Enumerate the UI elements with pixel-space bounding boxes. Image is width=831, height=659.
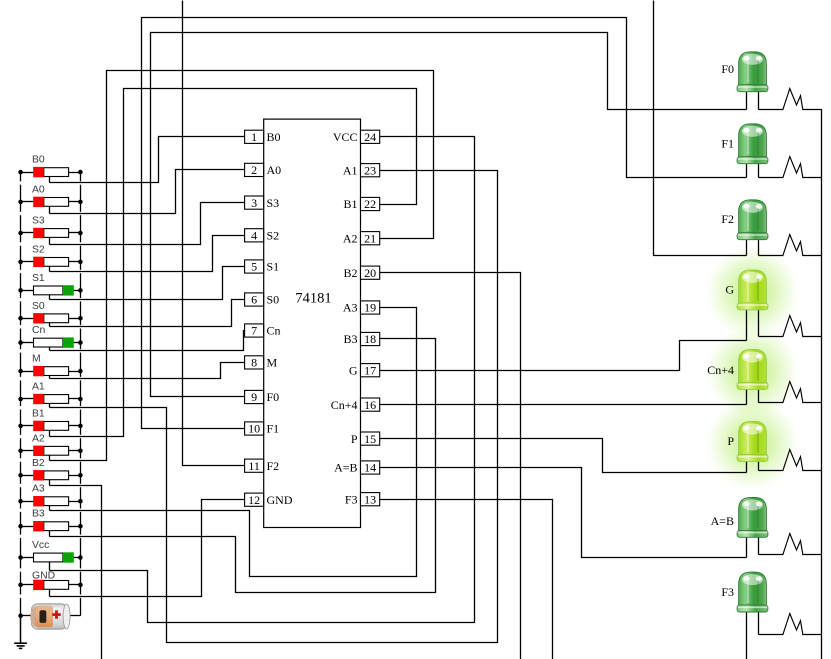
svg-text:F1: F1 — [721, 137, 734, 151]
svg-text:B0: B0 — [267, 130, 281, 144]
svg-text:Cn+4: Cn+4 — [707, 363, 734, 377]
svg-text:5: 5 — [251, 260, 257, 274]
LED F1 — [737, 124, 779, 178]
svg-text:6: 6 — [251, 293, 257, 307]
svg-text:Cn: Cn — [32, 325, 46, 336]
svg-text:M: M — [267, 356, 278, 370]
svg-text:A2: A2 — [32, 433, 45, 444]
wire net Vcc switch to pin 24 VCC — [50, 137, 475, 623]
wire net F2 feed to LED F2 (enters from top) — [654, 1, 747, 256]
svg-text:S2: S2 — [267, 229, 280, 243]
LED Cn+4 — [737, 350, 779, 405]
svg-text:9: 9 — [251, 390, 257, 404]
svg-text:10: 10 — [248, 422, 260, 436]
svg-text:8: 8 — [251, 356, 257, 370]
battery B1 (supply) — [30, 604, 70, 629]
svg-text:S3: S3 — [32, 216, 45, 227]
pin 23 A1 — [361, 164, 380, 177]
ground symbol — [20, 616, 22, 643]
svg-text:23: 23 — [364, 163, 376, 177]
resistor R A=B — [780, 534, 822, 555]
wire net pin 10 F1 to LED F1 — [142, 18, 747, 429]
svg-text:G: G — [725, 283, 734, 297]
switch M — [21, 371, 34, 373]
wire net pin 9 F0 to LED F0 — [151, 33, 747, 397]
svg-text:F3: F3 — [721, 585, 734, 599]
wire net B3 switch to pin 18 — [50, 339, 436, 593]
svg-text:A2: A2 — [343, 231, 358, 245]
resistor R G — [780, 316, 822, 337]
pin 21 A2 — [361, 232, 380, 245]
svg-text:VCC: VCC — [333, 130, 358, 144]
LED A=B — [737, 497, 779, 557]
wire net Cn switch to pin 7 — [50, 331, 245, 351]
pin 3 S3 — [245, 196, 264, 209]
svg-text:19: 19 — [364, 301, 376, 315]
svg-text:S2: S2 — [32, 244, 45, 255]
pin 20 B2 — [361, 266, 380, 279]
wire net S2 switch to pin 4 — [50, 236, 245, 272]
switch Vcc — [21, 557, 34, 559]
pin 22 B1 — [361, 197, 380, 210]
svg-text:14: 14 — [364, 461, 376, 475]
svg-text:F0: F0 — [267, 390, 280, 404]
pin 9 F0 — [245, 390, 264, 403]
switch A3 — [21, 501, 34, 503]
svg-text:22: 22 — [364, 197, 376, 211]
pin 12 GND — [245, 493, 264, 506]
wire net S0 switch to pin 6 — [50, 300, 245, 327]
resistor R F1 — [780, 157, 822, 178]
switch A1 — [21, 398, 34, 400]
svg-text:A1: A1 — [343, 163, 358, 177]
glow of LED Cn+4 — [707, 326, 799, 418]
switch A0 — [21, 201, 34, 203]
pin 19 A3 — [361, 301, 380, 314]
svg-text:21: 21 — [364, 231, 376, 245]
svg-text:S0: S0 — [32, 301, 45, 312]
pin 17 G — [361, 364, 380, 377]
svg-text:Vcc: Vcc — [32, 540, 49, 551]
wire net pin 16 Cn+4 to LED Cn+4 — [380, 404, 747, 406]
svg-text:Cn+4: Cn+4 — [331, 398, 358, 412]
svg-text:B0: B0 — [32, 155, 45, 166]
wire net S3 switch to pin 3 — [50, 203, 245, 245]
pin 10 F1 — [245, 422, 264, 435]
svg-text:GND: GND — [32, 570, 55, 581]
wire net B1 switch to pin 22 — [50, 89, 417, 437]
wire battery to left rail — [21, 615, 32, 617]
svg-text:F1: F1 — [267, 422, 280, 436]
pin 2 A0 — [245, 163, 264, 176]
svg-text:20: 20 — [364, 266, 376, 280]
switch B0 — [21, 172, 34, 174]
pin 6 S0 — [245, 293, 264, 306]
wire net GND switch to pin 12 — [50, 500, 245, 597]
svg-text:B1: B1 — [32, 408, 45, 419]
svg-text:F2: F2 — [267, 459, 280, 473]
svg-text:13: 13 — [364, 492, 376, 506]
pin 5 S1 — [245, 260, 264, 273]
svg-text:17: 17 — [364, 363, 376, 377]
svg-text:4: 4 — [251, 229, 257, 243]
svg-text:7: 7 — [251, 324, 257, 338]
wire net pin 13 F3 (exits bottom) — [380, 500, 553, 659]
svg-text:F3: F3 — [345, 492, 358, 506]
resistor R F2 — [780, 235, 822, 256]
LED F3 — [737, 572, 779, 634]
op IC U1 74181 body — [264, 119, 361, 527]
wire net B0 switch to pin 1 — [50, 137, 245, 183]
LED P — [737, 422, 779, 473]
wire battery to right rail — [69, 615, 81, 617]
svg-text:B3: B3 — [32, 509, 45, 520]
svg-text:P: P — [727, 434, 734, 448]
svg-text:1: 1 — [251, 130, 257, 144]
switch B2 — [21, 475, 34, 477]
wire LED cathode rail (right) — [821, 110, 823, 659]
pin 7 Cn — [245, 324, 264, 337]
svg-text:15: 15 — [364, 432, 376, 446]
switch S3 — [21, 232, 34, 234]
svg-text:A=B: A=B — [711, 514, 734, 528]
pin 24 VCC — [361, 130, 380, 143]
switch B3 — [21, 526, 34, 528]
switch B1 — [21, 425, 34, 427]
svg-text:18: 18 — [364, 332, 376, 346]
svg-text:11: 11 — [248, 459, 260, 473]
svg-text:2: 2 — [251, 163, 257, 177]
svg-text:P: P — [351, 432, 358, 446]
svg-text:12: 12 — [248, 493, 260, 507]
pin 8 M — [245, 356, 264, 369]
svg-text:B3: B3 — [343, 332, 357, 346]
svg-text:A1: A1 — [32, 382, 45, 393]
pin 18 B3 — [361, 332, 380, 345]
wire LED F3 cathode lead (exits bottom) — [746, 613, 748, 659]
switch Cn — [21, 342, 34, 344]
switch GND — [21, 584, 34, 586]
pin 13 F3 — [361, 493, 380, 506]
wire left GND rail — [20, 172, 22, 181]
switch S1 — [21, 290, 34, 292]
svg-text:A=B: A=B — [334, 461, 357, 475]
svg-text:B2: B2 — [343, 266, 357, 280]
resistor R Cn+4 — [780, 382, 822, 403]
svg-text:A0: A0 — [267, 163, 282, 177]
svg-text:F2: F2 — [721, 212, 734, 226]
svg-text:A3: A3 — [343, 301, 358, 315]
svg-text:24: 24 — [364, 130, 376, 144]
svg-text:A3: A3 — [32, 484, 45, 495]
svg-text:M: M — [32, 354, 41, 365]
pin 4 S2 — [245, 229, 264, 242]
wire net A0 switch to pin 2 — [50, 170, 245, 214]
pin 1 B0 — [245, 130, 264, 143]
wire net pin 11 F2 left part (exits top) — [183, 1, 245, 466]
wire net pin 17 G to LED G — [380, 341, 747, 371]
LED F2 — [737, 200, 779, 256]
svg-text:F0: F0 — [721, 62, 734, 76]
resistor R F3 — [780, 614, 822, 635]
pin 16 Cn+4 — [361, 398, 380, 411]
pin 11 F2 — [245, 459, 264, 472]
LED F0 — [737, 52, 779, 110]
svg-text:S3: S3 — [267, 196, 280, 210]
svg-text:3: 3 — [251, 196, 257, 210]
wire net A3 switch to pin 19 — [50, 308, 417, 577]
svg-text:S1: S1 — [32, 273, 45, 284]
pin 15 P — [361, 432, 380, 445]
wire net A2 switch to pin 21 — [50, 71, 434, 461]
switch S2 — [21, 261, 34, 263]
wire net A1 switch to pin 23 — [50, 171, 498, 643]
glow of LED G — [707, 246, 799, 338]
svg-text:B1: B1 — [343, 197, 357, 211]
svg-text:74181: 74181 — [295, 291, 331, 307]
svg-text:GND: GND — [267, 493, 293, 507]
wire net pin 14 A=B to LED A=B — [380, 468, 747, 558]
svg-text:16: 16 — [364, 398, 376, 412]
resistor R F0 — [780, 89, 822, 110]
wire net B2 feed to pin 20 (enters from bottom) — [380, 273, 521, 659]
wire net pin 15 P to LED P — [380, 439, 747, 473]
pin 14 A=B — [361, 461, 380, 474]
svg-text:Cn: Cn — [267, 324, 281, 338]
wire right VCC rail — [80, 172, 82, 181]
svg-text:S1: S1 — [267, 260, 280, 274]
wire net S1 switch to pin 5 — [50, 267, 245, 300]
resistor R P — [780, 450, 822, 471]
LED G — [737, 270, 779, 341]
svg-text:S0: S0 — [267, 293, 280, 307]
svg-text:B2: B2 — [32, 458, 45, 469]
wire net B2 switch (exits bottom) — [50, 486, 102, 659]
glow of LED P — [707, 398, 799, 490]
wire net M switch to pin 8 — [50, 363, 245, 379]
switch A2 — [21, 450, 34, 452]
svg-text:G: G — [349, 363, 358, 377]
switch S0 — [21, 318, 34, 320]
svg-text:A0: A0 — [32, 184, 45, 195]
